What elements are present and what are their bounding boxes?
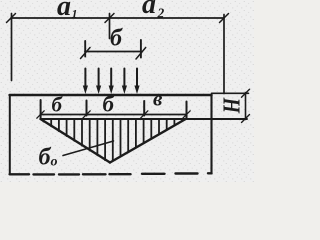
svg-text:в: в (153, 87, 163, 111)
svg-text:H: H (218, 97, 245, 114)
svg-text:б: б (52, 93, 64, 117)
svg-text:б: б (110, 26, 123, 52)
svg-text:б: б (103, 92, 116, 117)
